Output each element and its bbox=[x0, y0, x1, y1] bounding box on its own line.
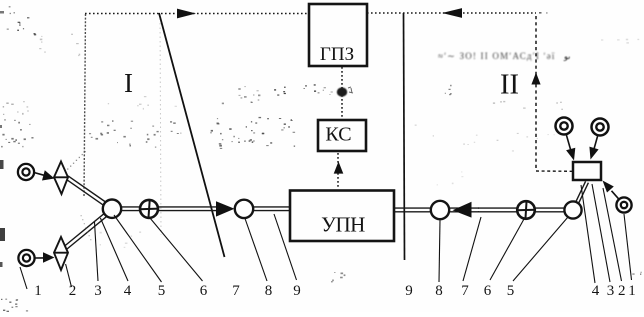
svg-text:≈ʹ∼ ЗО! ІІ ОМʹАСд′І ʹәї: ≈ʹ∼ ЗО! ІІ ОМʹАСд′І ʹәї bbox=[438, 51, 556, 61]
well 1 left-top (double circle) bbox=[18, 164, 34, 180]
pipeline: diamond1 to meter circle bbox=[66, 176, 106, 205]
svg-text:1: 1 bbox=[628, 283, 636, 299]
zone II boundary vertical bbox=[404, 13, 405, 260]
pipeline: valve6 to pump arrow bbox=[157, 207, 217, 211]
leader 7 right bbox=[463, 217, 481, 281]
svg-text:4: 4 bbox=[592, 283, 600, 299]
pipeline: circle5 to valve6 bbox=[120, 207, 141, 211]
valve 6 right (circle with cross) bbox=[516, 200, 535, 220]
circle 8 right bbox=[431, 201, 449, 219]
numbers bottom left row bbox=[34, 283, 301, 299]
svg-text:ГПЗ: ГПЗ bbox=[320, 44, 354, 65]
pipeline: circle5r up to separator bbox=[576, 181, 589, 203]
svg-text:9: 9 bbox=[405, 283, 413, 299]
leader 6 left bbox=[150, 218, 203, 281]
svg-text:5: 5 bbox=[507, 283, 515, 299]
leader 8 left bbox=[245, 219, 267, 282]
smudge blob on GPZ-KS link bbox=[337, 87, 347, 96]
choke 2 bottom (diamond) bbox=[54, 237, 68, 270]
leader 3 left bbox=[95, 222, 99, 281]
circle 5 right bbox=[564, 201, 581, 218]
leader 2 right bbox=[603, 188, 622, 281]
leader 1 right bbox=[624, 214, 632, 280]
leader 3 right bbox=[592, 184, 610, 282]
faint speckles right half band bbox=[512, 150, 514, 153]
svg-text:ىو: ىو bbox=[563, 52, 570, 61]
svg-text:5: 5 bbox=[158, 283, 166, 299]
leader 6 right bbox=[490, 219, 524, 280]
svg-text:4: 4 bbox=[124, 283, 132, 299]
leader 4 right bbox=[581, 185, 595, 283]
svg-text:6: 6 bbox=[484, 283, 492, 299]
pipeline: circle8r to pump arrow right bbox=[448, 208, 479, 212]
svg-text:КС: КС bbox=[325, 124, 351, 146]
top dotted line left segment bbox=[85, 13, 309, 15]
up arrow on dashed line bbox=[531, 73, 540, 85]
pump arrow left (flow to UPN) bbox=[216, 201, 235, 216]
leader 5 left bbox=[114, 215, 162, 282]
svg-text:7: 7 bbox=[461, 283, 469, 299]
svg-text:I: I bbox=[124, 68, 133, 98]
valve 6 left (circle with cross) bbox=[139, 199, 159, 219]
pipeline: circle8 to UPN bbox=[252, 207, 291, 211]
dashed arrow UPN to KS bbox=[337, 153, 339, 189]
svg-text:9: 9 bbox=[293, 283, 301, 299]
faint dotted vertical x=160 bbox=[160, 14, 161, 235]
pipeline: pump to valve6 right bbox=[478, 208, 518, 212]
svg-text:3: 3 bbox=[607, 283, 615, 299]
box GPZ bbox=[309, 4, 367, 66]
numbers bottom right row bbox=[405, 283, 636, 299]
pipeline: valve6r to circle5r bbox=[534, 208, 566, 212]
scanner speckle noise bbox=[18, 22, 21, 23]
dashed link GPZ-KS bbox=[341, 67, 343, 119]
circle 8 left bbox=[235, 200, 253, 218]
svg-text:II: II bbox=[500, 70, 519, 101]
stray dash right of top corner bbox=[539, 12, 542, 14]
svg-text:8: 8 bbox=[265, 283, 273, 299]
svg-text:6: 6 bbox=[200, 283, 208, 299]
svg-text:УПН: УПН bbox=[321, 213, 365, 237]
leader 2 left bbox=[66, 264, 72, 287]
left margin scanner marks bbox=[0, 160, 4, 169]
dashed vertical line right (gas line) bbox=[535, 16, 537, 171]
pipeline: UPN to circle8 right bbox=[393, 208, 432, 212]
well 1 left-bottom (double circle) bbox=[18, 250, 34, 266]
leader 8 right bbox=[439, 220, 440, 282]
arrow well C to separator corner bbox=[612, 191, 620, 200]
arrow well B to separator bbox=[594, 135, 598, 149]
zone I boundary diagonal bbox=[159, 13, 225, 257]
svg-text:2: 2 bbox=[69, 283, 77, 299]
svg-text:2: 2 bbox=[618, 283, 626, 299]
svg-text:1: 1 bbox=[34, 283, 42, 299]
arrow left on top dotted line bbox=[442, 8, 462, 18]
arrow well1 to choke2 bbox=[34, 173, 46, 176]
arrow well to choke2 bottom bbox=[35, 257, 46, 259]
meter circle 5 left bbox=[103, 200, 121, 218]
well right A (double circle) bbox=[556, 118, 573, 135]
pipeline: diamond2 to meter circle bbox=[63, 213, 107, 250]
arrow well A to separator bbox=[566, 134, 571, 150]
leader 1 left bbox=[20, 267, 27, 289]
svg-text:8: 8 bbox=[435, 283, 443, 299]
separator block (rect) top right bbox=[573, 162, 601, 180]
leader 4 left bbox=[100, 218, 128, 281]
arrow right on top dotted line bbox=[177, 9, 196, 19]
box KS bbox=[318, 120, 366, 151]
leader 9 left bbox=[274, 214, 297, 280]
top dotted line right segment bbox=[367, 12, 536, 14]
svg-text:7: 7 bbox=[232, 283, 240, 299]
left dotted vertical border bbox=[84, 14, 86, 196]
leader 5 right bbox=[513, 217, 568, 281]
pump arrow right (flow to UPN, points left) bbox=[453, 202, 472, 218]
well right C (double circle) bbox=[616, 197, 631, 212]
svg-text:3: 3 bbox=[94, 283, 102, 299]
choke 2 top (diamond) bbox=[54, 162, 68, 195]
well right B (double circle) bbox=[592, 119, 609, 136]
dashed horizontal to separator bbox=[536, 170, 573, 172]
box UPN bbox=[290, 191, 394, 242]
